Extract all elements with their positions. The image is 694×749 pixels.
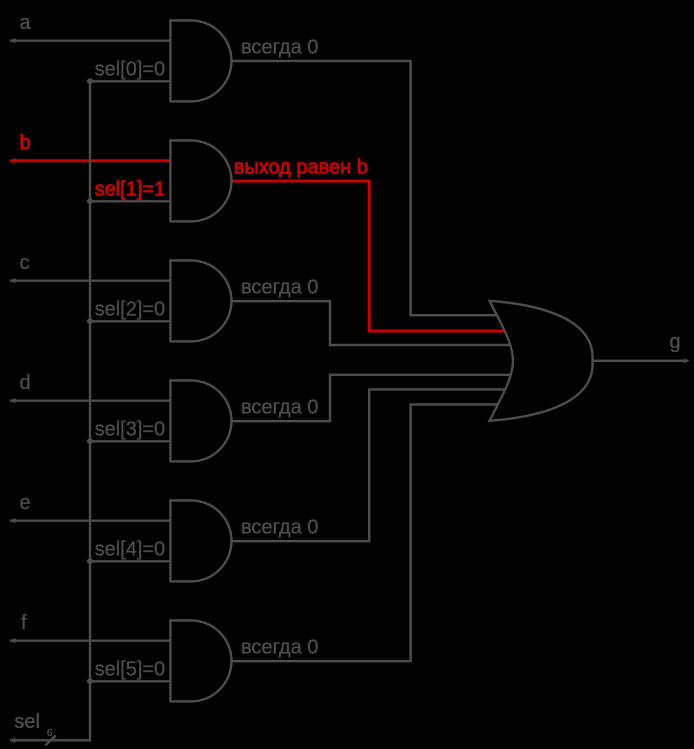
svg-text:всегда 0: всегда 0: [241, 637, 318, 659]
svg-text:sel[4]=0: sel[4]=0: [95, 538, 166, 560]
wire sel[4] branch: [90, 560, 172, 562]
wire c input: [10, 280, 172, 282]
svg-text:g: g: [670, 331, 681, 353]
svg-text:всегда 0: всегда 0: [241, 397, 318, 419]
AND gate U5: [170, 500, 231, 581]
wire sel[1] branch: [90, 200, 172, 202]
wire sel bus vertical: [10, 81, 90, 740]
wire d input: [10, 400, 172, 402]
wire g output: [592, 360, 686, 362]
svg-text:b: b: [20, 132, 31, 154]
svg-text:sel[0]=0: sel[0]=0: [95, 58, 166, 80]
arrow input b: [10, 158, 16, 163]
wire f input: [10, 640, 172, 642]
svg-text:sel[3]=0: sel[3]=0: [95, 418, 166, 440]
arrow input sel: [10, 738, 16, 743]
AND gate U6: [170, 620, 231, 701]
wire U6 output to OR: [230, 404, 513, 661]
arrow input f: [10, 638, 16, 643]
junction sel[5]: [87, 678, 93, 684]
junction sel[3]: [87, 438, 93, 444]
AND gate U4: [170, 380, 231, 461]
wire b (red input net): [10, 159, 172, 162]
svg-text:f: f: [21, 612, 27, 634]
bus width slash: [45, 736, 56, 746]
wire sel[2] branch: [90, 320, 172, 322]
wire U3 output to OR: [230, 301, 513, 345]
arrow input e: [10, 518, 16, 523]
AND gate U1: [170, 20, 231, 101]
svg-text:выход равен b: выход равен b: [234, 157, 368, 179]
svg-text:6: 6: [47, 728, 53, 739]
svg-text:sel: sel: [14, 711, 40, 733]
wire sel[5] branch: [90, 680, 172, 682]
svg-text:всегда 0: всегда 0: [241, 517, 318, 539]
wire sel[0] branch: [90, 80, 172, 82]
AND gate U2: [170, 140, 231, 221]
arrow input d: [10, 398, 16, 403]
svg-text:всегда 0: всегда 0: [241, 277, 318, 299]
arrow input c: [10, 278, 16, 283]
svg-text:c: c: [20, 252, 30, 274]
junction sel[2]: [87, 318, 93, 324]
arrow output g: [684, 358, 690, 363]
wire U2 output to OR (red net: выход равен b): [230, 181, 513, 331]
wire U1 output to OR: [230, 61, 513, 315]
svg-text:d: d: [20, 372, 31, 394]
AND gate U3: [170, 260, 231, 341]
svg-text:sel[2]=0: sel[2]=0: [95, 298, 166, 320]
wire sel[3] branch: [90, 440, 172, 442]
wire e input: [10, 520, 172, 522]
svg-text:e: e: [20, 492, 31, 514]
junction sel[1]: [87, 198, 93, 204]
wire U5 output to OR: [230, 389, 513, 541]
svg-text:sel[1]=1: sel[1]=1: [95, 178, 166, 200]
svg-text:sel[5]=0: sel[5]=0: [95, 658, 166, 680]
OR gate U7: [490, 301, 593, 421]
arrow input a: [10, 38, 16, 43]
svg-text:всегда 0: всегда 0: [241, 37, 318, 59]
svg-text:a: a: [20, 12, 32, 34]
junction sel[4]: [87, 558, 93, 564]
wire U4 output to OR: [230, 375, 513, 421]
junction sel[0]: [87, 78, 93, 84]
wire a input: [10, 40, 172, 42]
